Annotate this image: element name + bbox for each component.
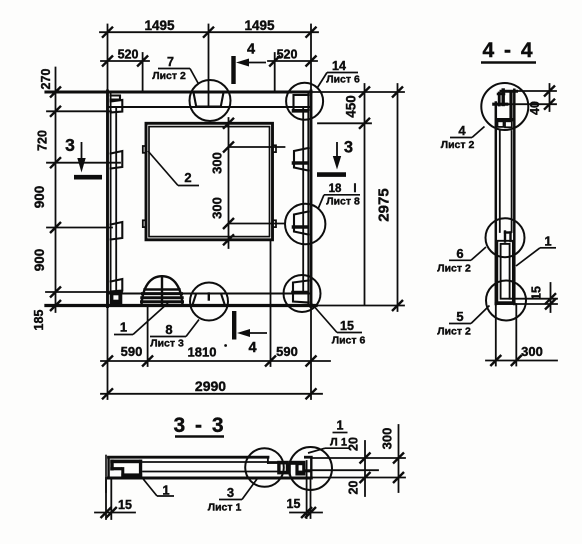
tick 450 top: [359, 87, 370, 98]
3-3 dim line 300: [398, 425, 400, 492]
panel outer right edge: [310, 91, 313, 307]
svg-text:Лист 2: Лист 2: [152, 70, 186, 82]
svg-text:300: 300: [380, 428, 395, 450]
4-4 dim line 300: [486, 360, 557, 362]
tick 20 top: [360, 453, 371, 464]
left edge key tab 2: [111, 151, 123, 169]
tick 15-44 bottom: [545, 299, 556, 310]
top edge middle key trapezoid: [193, 92, 223, 107]
3-3 right ext y470: [305, 469, 378, 471]
3-3 right end verticals (15 ext through slab): [306, 461, 308, 518]
3-3 left 15 ext lines: [105, 478, 107, 519]
tick 15R a: [301, 507, 312, 518]
dim line 520 right: [268, 60, 317, 62]
svg-text:I: I: [353, 183, 356, 195]
3-3 key 2 channel: [289, 461, 306, 476]
tick chain y92: [50, 87, 61, 98]
svg-text:Лист 6: Лист 6: [326, 74, 360, 86]
bottom ext x311: [310, 307, 312, 400]
inner square tab left upper: [143, 146, 146, 153]
4-4 middle joint hook: [505, 232, 511, 242]
tick bottom x107.5: [102, 356, 113, 367]
svg-text:300: 300: [210, 152, 225, 174]
3-3 key 1 dark ring: [277, 461, 288, 475]
leader label 15 / Лист 6: [312, 304, 365, 347]
ext 450 top y92: [313, 91, 404, 93]
4-4 ext 15 bottom: [496, 303, 557, 305]
svg-text:590: 590: [276, 344, 298, 359]
svg-text:2975: 2975: [376, 188, 393, 221]
tick 300 a: [223, 118, 234, 129]
4-4 strip inner left: [499, 131, 501, 232]
3-3 callout circle B: [289, 447, 332, 490]
svg-text:520: 520: [277, 48, 298, 62]
tick 15L b: [106, 507, 117, 518]
3-3 left end faces: [105, 456, 107, 493]
extension line left at x107.5: [107, 25, 109, 93]
left chain ext y111.3: [47, 110, 111, 112]
leader label 1 (plan bottom): [114, 303, 168, 335]
tick bottom x311: [306, 356, 317, 367]
tick 1495 left: [102, 27, 113, 38]
extension line right at x311: [310, 25, 312, 93]
svg-text:300: 300: [210, 197, 225, 219]
left edge key tab 1: [111, 100, 123, 113]
svg-text:4 - 4: 4 - 4: [482, 39, 534, 62]
section marker 3 left: [65, 135, 102, 177]
svg-text:3: 3: [227, 485, 234, 500]
svg-text:4: 4: [248, 340, 256, 356]
tick bottom x270.5: [265, 356, 276, 367]
leader label 18 I / Лист 8: [318, 183, 360, 209]
leader label 1 / Л 1 (3-3 right): [308, 419, 350, 454]
svg-text:1495: 1495: [144, 18, 175, 33]
svg-text:1: 1: [544, 234, 551, 249]
inner square tab right lower: [273, 220, 277, 227]
leader label 1 (4-4): [516, 234, 556, 267]
svg-text:3: 3: [344, 139, 353, 157]
right edge key tab in middle circle: [294, 212, 309, 235]
inner square opening inner: [149, 127, 270, 237]
4-4 small joint rects below hook: [498, 121, 504, 127]
leader label 7 / Лист 2: [152, 55, 198, 83]
svg-text:3 - 3: 3 - 3: [173, 414, 225, 437]
svg-text:4: 4: [247, 42, 255, 58]
svg-text:300: 300: [521, 344, 543, 359]
bottom edge middle key trapezoid (in circle): [192, 294, 225, 306]
svg-text:20: 20: [347, 481, 361, 495]
svg-text:1: 1: [337, 419, 344, 433]
tick 450 bottom: [359, 118, 370, 129]
bottom ext x147.6: [147, 307, 149, 367]
panel left edge second line: [110, 92, 112, 306]
4-4 ext 300 right: [515, 304, 517, 366]
left edge key tab 3: [111, 222, 123, 240]
svg-text:2: 2: [184, 170, 191, 185]
svg-text:Лист 1: Лист 1: [208, 502, 242, 514]
ext 2975 bottom y305.5: [316, 305, 404, 307]
svg-text:2990: 2990: [195, 378, 226, 394]
4-4 dim line 15: [550, 283, 552, 312]
ext 450 bottom y123.3: [318, 122, 371, 124]
3-3 left channel detail: [110, 460, 142, 478]
tick 520 l1: [102, 56, 113, 67]
4-4 top hook detail: [494, 90, 517, 120]
extension 520 right x274.7: [274, 53, 276, 92]
svg-text:1: 1: [120, 320, 127, 335]
leader label 6 / Лист 2: [437, 246, 486, 275]
4-4 strip outer right: [513, 90, 516, 304]
dot speck: [224, 344, 227, 347]
tick 2975 top: [392, 87, 403, 98]
lifting loop dome: [142, 276, 183, 305]
callout circle bottom right: [284, 275, 321, 312]
tick 15L a: [101, 507, 112, 518]
tick bottom x147.6: [142, 356, 153, 367]
tick 1495 mid: [203, 27, 214, 38]
svg-text:Лист 3: Лист 3: [150, 338, 184, 350]
svg-text:185: 185: [32, 310, 46, 331]
dim line 1495+1495: [100, 31, 318, 33]
bottom key center tick: [208, 294, 210, 300]
dim line 2990: [101, 393, 322, 395]
leader label 1 (3-3 left): [143, 479, 174, 498]
tick chain y227.5: [50, 222, 61, 233]
3-3 right 15 dim line: [290, 512, 322, 514]
tick 2990 left: [102, 388, 113, 399]
svg-text:15: 15: [530, 286, 544, 300]
left chain ext y292: [46, 291, 122, 293]
section marker 4 bottom: [234, 311, 267, 356]
svg-text:15: 15: [340, 319, 354, 333]
inner square opening outer: [146, 123, 273, 240]
4-4 bottom channel inner: [501, 244, 510, 299]
tick 300-33 bottom: [393, 472, 404, 483]
4-4 ext 300 left: [495, 304, 497, 366]
left chain ext y227.5: [47, 227, 112, 229]
tick 2975 bottom: [392, 300, 403, 311]
4-4 bottom channel outer: [497, 241, 513, 302]
svg-text:Лист 2: Лист 2: [441, 139, 475, 151]
inner square tab left lower: [143, 220, 146, 227]
4-4 strip outer left: [495, 103, 498, 305]
3-3 slab inner bottom line: [143, 471, 311, 473]
svg-text:1810: 1810: [188, 345, 217, 360]
svg-text:900: 900: [32, 186, 47, 209]
panel outer bottom edge: [46, 304, 316, 307]
4-4 ext 40 top: [516, 90, 556, 92]
left edge key tab 4: [111, 279, 123, 292]
leader label 2: [148, 151, 199, 186]
leader label 3 / Лист 1: [208, 479, 257, 514]
svg-text:14: 14: [332, 59, 346, 73]
3-3 left 15 dim line: [95, 512, 135, 514]
right edge bottom corner key (in circle): [293, 281, 308, 303]
section marker 4 top: [234, 42, 267, 85]
inner square tab right upper: [273, 145, 277, 152]
panel left rib inner line: [115, 107, 117, 294]
tick chain y162.7: [50, 157, 61, 168]
bottom chain dim line: [101, 360, 330, 362]
svg-text:3: 3: [65, 135, 75, 155]
svg-text:Лист 8: Лист 8: [326, 196, 360, 208]
tick 1495 right: [306, 27, 317, 38]
panel right edge second line: [307, 92, 309, 306]
panel outer top edge: [46, 90, 311, 93]
leader label 14 / Лист 6: [318, 59, 360, 88]
svg-text:4: 4: [458, 123, 466, 138]
svg-text:15: 15: [118, 498, 132, 512]
dim line 2975: [397, 84, 399, 311]
tick chain y292: [50, 287, 61, 298]
tick 300 c: [223, 218, 234, 229]
leader label 8 / Лист 3: [150, 320, 199, 350]
4-4 ext 40 bottom: [507, 103, 556, 105]
extension line middle at x208.5: [208, 25, 210, 107]
tick 15-44 top: [545, 293, 556, 304]
panel bottom inner line: [108, 293, 310, 295]
callout circle top right: [286, 83, 323, 120]
bottom ext x107.5: [107, 307, 109, 400]
tick chain y305.5: [50, 300, 61, 311]
tick 2990 right: [306, 388, 317, 399]
svg-text:590: 590: [121, 344, 143, 359]
leader label 4 / Лист 2: [441, 123, 485, 151]
tick 20 bottom: [360, 472, 371, 483]
inner ext y223.5: [229, 223, 285, 225]
4-4 ext 15 top: [510, 298, 557, 300]
svg-text:40: 40: [528, 101, 542, 115]
3-3 slab top line: [109, 456, 269, 459]
callout circle bottom middle: [190, 283, 228, 321]
callout circle middle right: [285, 204, 325, 244]
svg-text:15: 15: [287, 497, 301, 511]
svg-text:Лист 2: Лист 2: [437, 326, 471, 338]
inner ext y147: [229, 146, 285, 148]
tick 520 r1: [269, 56, 280, 67]
svg-text:270: 270: [39, 69, 53, 90]
svg-text:8: 8: [165, 322, 172, 337]
tick 520 r2: [306, 56, 317, 67]
svg-text:1495: 1495: [244, 18, 275, 33]
3-3 key step left: [267, 457, 269, 463]
tick 520 l2: [137, 56, 148, 67]
svg-text:Лист 2: Лист 2: [437, 263, 471, 275]
left chain ext y162.7: [47, 162, 120, 164]
panel outer left edge: [106, 91, 109, 307]
section marker 3 right: [317, 139, 353, 175]
3-3 dim line 20/20: [364, 441, 366, 496]
tick 300-44 left: [490, 355, 501, 366]
svg-text:450: 450: [344, 95, 359, 118]
left chain dim line: [55, 68, 57, 313]
tick 40 bottom: [544, 99, 555, 110]
3-3 callout circle A: [245, 448, 284, 487]
tick 300-33 top: [393, 453, 404, 464]
4-4 callout circle top: [481, 83, 528, 130]
3-3 right ext y477.5: [311, 477, 405, 479]
svg-text:520: 520: [118, 48, 139, 62]
tick 300-44 right: [511, 355, 522, 366]
4-4 callout circle middle: [486, 218, 525, 257]
left top corner step: [111, 96, 120, 100]
3-3 slab inner top line: [143, 461, 277, 463]
left bottom corner block: [110, 292, 122, 304]
tick 300 b: [223, 142, 234, 153]
svg-text:18: 18: [329, 183, 342, 195]
svg-text:6: 6: [456, 246, 463, 261]
leader label 5 / Лист 2: [437, 306, 489, 338]
svg-text:7: 7: [167, 55, 174, 69]
4-4 dim line 40: [549, 84, 551, 111]
tick chain y111.3: [50, 106, 61, 117]
svg-text:720: 720: [36, 130, 50, 151]
svg-text:Лист 6: Лист 6: [332, 335, 366, 347]
3-3 slab bottom line: [109, 477, 312, 480]
tick 15R b: [305, 507, 316, 518]
extension 520 left x142.6: [142, 53, 144, 92]
4-4 bottom cap: [496, 302, 515, 305]
inner square dim vertical x228.5: [228, 118, 230, 248]
4-4 callout circle bottom: [486, 281, 526, 321]
dim line 450 and long right extension: [364, 84, 366, 305]
svg-text:5: 5: [456, 309, 463, 324]
right edge top corner key (in circle): [294, 95, 309, 111]
tick 300 d: [223, 234, 234, 245]
panel right rib inner line: [302, 107, 304, 294]
3-3 right end face: [310, 457, 312, 478]
dim line 520 left: [101, 60, 149, 62]
4-4 strip inner right: [511, 131, 513, 232]
right edge key tab upper: [294, 148, 309, 171]
tick 40 top: [544, 86, 555, 97]
svg-text:900: 900: [32, 249, 47, 272]
3-3 right ext y458: [311, 457, 405, 459]
callout circle top middle: [190, 80, 231, 121]
panel top inner line: [108, 106, 310, 108]
svg-text:Л 1: Л 1: [330, 437, 347, 449]
bottom ext x270.5: [270, 240, 272, 366]
